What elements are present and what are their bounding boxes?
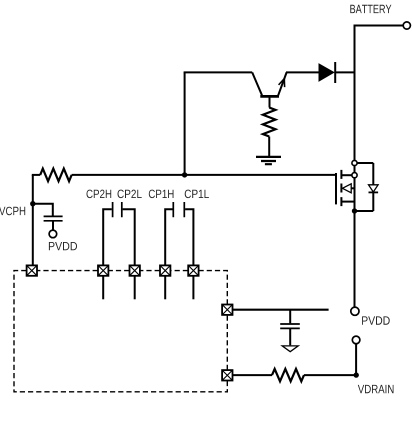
capacitor C1 PVDD bypass plates [44,216,63,220]
wire resistor to VDRAIN node [304,374,356,376]
node open circle drain top [352,160,357,165]
wire cap C2 bottom lead [289,328,291,345]
transistor Q1 base bar [260,95,279,98]
wire transistor left horizontal [184,71,253,73]
switch S6 [222,305,232,315]
wire CP2L lead [123,209,135,265]
wire stub below switch S5 [192,276,194,300]
wire main vertical right rail [354,25,356,307]
wire transistor branch vertical [184,72,186,174]
capacitor CP2 plates [113,202,122,217]
resistor R1 base pulldown [263,108,276,137]
wire body diode bottom [355,210,374,212]
wire stub below switch S2 [102,276,104,300]
ground symbol [256,157,281,164]
MOSFET Q2 gate bar [335,173,337,204]
node VCPH junction dot [30,201,35,206]
switch S7 [222,370,232,380]
wire body diode top [355,162,374,164]
label PVDD left [49,242,77,250]
wire VCPH to bypass cap [33,204,53,216]
label CP1H [149,190,174,199]
node junction dot source [352,208,357,213]
label CP2L [118,190,142,199]
ground triangle signal ground [282,346,298,352]
transistor Q1 emitter arrowhead [279,79,285,88]
wire VDRAIN terminal lead [355,344,357,375]
resistor R2 VCPH [40,169,71,182]
node junction dot at transistor branch [182,172,187,177]
terminal PVDD left [49,230,57,238]
wire VCPH vertical [32,175,34,266]
wire cap C2 top lead [289,310,291,324]
wire diode to rail [336,71,355,73]
wire base lead [269,98,271,108]
label PVDD right [362,316,390,324]
terminal PVDD right [351,307,359,315]
wire S7 to resistor [233,374,273,376]
capacitor C2 plates [280,324,300,328]
MOSFET Q2 source lead [342,201,355,203]
resistor R3 VDRAIN [272,369,304,381]
switch S3 [130,265,140,275]
wire main horizontal to gate [72,174,336,176]
wire battery top [355,25,404,27]
body diode D2 cathode bar [369,191,379,193]
MOSFET Q2 body arrow [342,184,354,193]
switch S1 [27,265,37,275]
MOSFET Q2 channel segments [340,170,342,206]
wire CP1L lead [185,209,193,265]
label CP2H [87,190,112,199]
diode D1 triangle [319,64,334,81]
wire resistor to ground [268,137,270,157]
wire stub below switch S4 [164,276,166,300]
switch S2 [98,265,108,275]
capacitor CP1 plates [173,202,184,217]
body diode D2 triangle [369,185,379,192]
label BATTERY [350,5,391,13]
terminal BATTERY [403,22,410,29]
wire S6 output [233,309,329,311]
charge pump block dashed outline [14,271,227,392]
wire CP2H lead [103,209,112,265]
node junction dot VDRAIN [354,372,359,377]
transistor Q1 left lead diagonal [252,72,262,95]
wire body diode vertical [372,163,374,211]
wire emitter to diode [286,71,320,73]
transistor Q1 right lead diagonal [278,72,286,95]
node open circle drain pin [352,173,357,178]
terminal VDRAIN [352,336,360,344]
label VCPH [0,207,25,216]
label VDRAIN [358,385,394,393]
MOSFET Q2 drain lead [342,174,355,176]
switch S5 [188,265,198,275]
wire resistor left lead [32,174,40,176]
wire CP1H lead [165,209,172,265]
diode D1 cathode bar [334,62,336,83]
switch S4 [160,265,170,275]
wire stub below switch S3 [134,276,136,300]
wire cap to PVDD terminal [52,221,54,230]
label CP1L [185,190,209,199]
